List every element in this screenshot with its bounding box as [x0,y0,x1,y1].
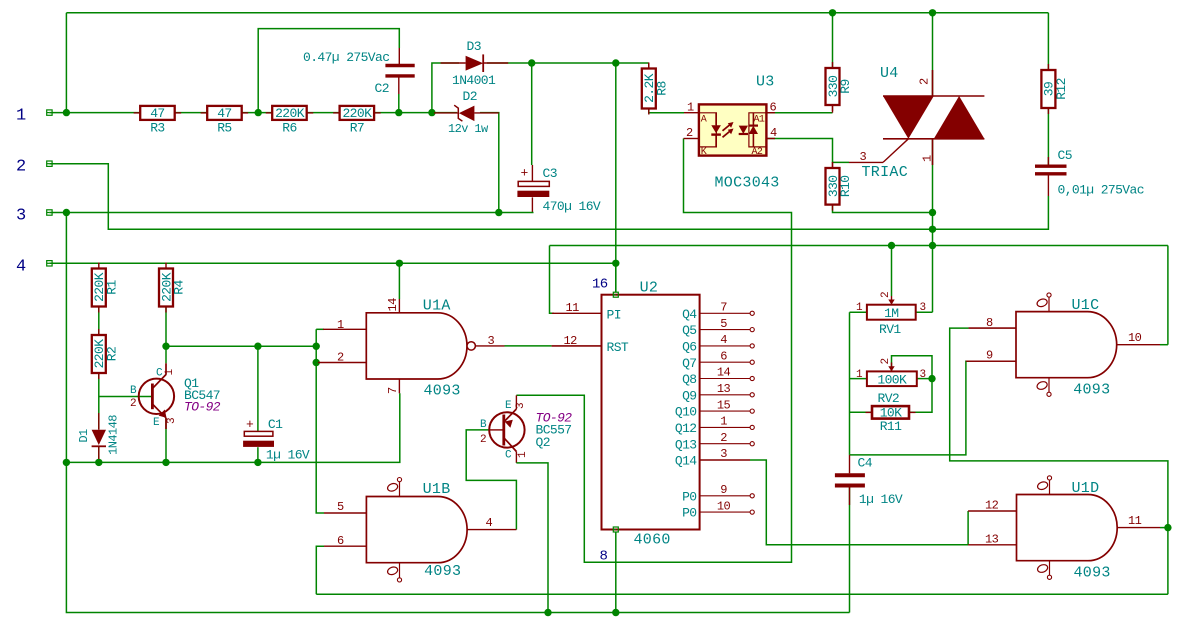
svg-text:D2: D2 [463,89,477,104]
svg-text:3: 3 [860,150,867,164]
wire U3 pin4 to gate and R10 [766,139,849,163]
svg-text:Q9: Q9 [682,388,696,403]
junction (257.9,346.2) [254,343,261,350]
svg-text:12v 1w: 12v 1w [448,122,489,136]
svg-text:8: 8 [600,549,608,565]
svg-text:220K: 220K [342,106,372,121]
svg-text:P0: P0 [682,506,696,521]
junction (399.4,263.3) [396,260,403,267]
svg-text:P0: P0 [682,489,696,504]
triac U4 [883,95,984,97]
junction (66.4,462.4) [63,459,70,466]
svg-text:3: 3 [920,369,926,381]
svg-text:9: 9 [986,349,993,363]
svg-text:PI: PI [607,308,621,323]
svg-text:Q5: Q5 [682,323,696,338]
resistor R6 [266,112,273,114]
svg-text:4093: 4093 [424,563,461,580]
wire RV column x=849.5 [849,312,851,455]
wire collector node row [166,345,316,347]
node pin3 pad [47,210,52,215]
svg-text:C: C [505,450,512,462]
capacitor C3 electrolytic [531,165,533,181]
svg-text:7: 7 [720,301,727,315]
svg-text:7: 7 [386,387,400,394]
svg-text:B: B [130,385,137,397]
junction (891.5,245.5) [888,242,895,249]
svg-text:4: 4 [770,126,777,140]
wire Q2 emitter lead [515,395,517,409]
junction (66.4,112.6) [63,109,70,116]
svg-text:TO-92: TO-92 [184,400,221,415]
wire R4 drop to collector node [165,305,167,363]
svg-text:A2: A2 [752,147,763,158]
svg-text:3: 3 [515,403,527,409]
wire Q14 to U1D inputs [750,460,968,545]
svg-text:D3: D3 [467,39,481,54]
svg-text:U2: U2 [640,280,659,297]
junction (615.8,63) [612,59,619,66]
junction (615.8,612.5) [612,609,619,616]
wire R11 left corner [850,411,873,413]
junction (531.7,63) [528,59,535,66]
resistor R12 [1047,64,1049,70]
svg-text:C2: C2 [375,81,389,96]
wire RV1 pin3 corner [916,311,933,313]
svg-text:U3: U3 [756,74,775,91]
resistor R2 [98,329,100,335]
wire R9 bottom to U3 pin6 [766,112,832,114]
wire 245 line [550,245,1168,247]
wire U1D pin12 corner [967,511,969,545]
svg-text:5: 5 [720,317,727,331]
wire U1A pin14 riser [398,263,400,299]
junction (932.5,212.5) [929,209,936,216]
wire TRIAC MT2 from rail [932,13,934,96]
svg-text:4060: 4060 [634,532,671,549]
svg-text:1M: 1M [884,306,898,321]
junction (316.2,362.5) [313,359,320,366]
svg-text:4093: 4093 [424,383,461,400]
wire R8 bottom to U3 pin1 [649,109,684,113]
svg-text:14: 14 [717,366,731,380]
wire R10 bottom to MT1 [833,205,933,213]
svg-text:1: 1 [921,155,935,162]
svg-text:U1A: U1A [423,298,451,315]
svg-text:1: 1 [16,107,26,126]
svg-text:D1: D1 [77,429,91,443]
wire C3 top riser [531,63,533,165]
svg-text:1: 1 [164,369,176,376]
diode D3 1N4001 [466,56,484,71]
junction (316.2,346.2) [313,343,320,350]
svg-text:Q2: Q2 [536,435,550,450]
svg-text:220K: 220K [275,106,305,121]
wire U1C out riser [1167,246,1169,345]
junction (832.5,12.8) [829,9,836,16]
svg-text:2: 2 [337,351,344,365]
svg-text:U1C: U1C [1072,297,1100,314]
wire U2 pin11 feed from 245 line [550,246,555,314]
svg-text:1: 1 [687,101,694,115]
svg-text:R5: R5 [217,120,231,135]
wire Q2 base to U1B out [489,429,503,431]
wire C1 top [257,346,259,431]
op-amp U1D 4093 gate [1017,494,1118,560]
svg-text:2: 2 [16,158,26,177]
wire Q2 collector to gnd [515,452,517,463]
opto-isolator U3 MOC3043 [699,104,767,155]
junction (166,346.2) [162,343,169,350]
wire U2 pin8 to gnd [615,532,617,612]
capacitor C2 [398,48,400,64]
junction (1167.9,527.6) [1164,524,1171,531]
svg-text:2: 2 [130,398,136,410]
svg-text:R9: R9 [838,79,853,93]
wire U1C pin8 route [969,327,1016,329]
wire gnd drop to bottom rail [66,462,849,612]
svg-text:1N4148: 1N4148 [107,415,121,455]
wire net2 to C5 [933,196,1049,229]
wire U2 pin16 riser [615,263,617,292]
junction (166,462.4) [162,459,169,466]
svg-text:Q8: Q8 [682,372,696,387]
resistor R9 [832,62,834,68]
junction (615.8,263.3) [612,260,619,267]
svg-text:1µ 16V: 1µ 16V [266,448,310,463]
svg-text:3: 3 [488,334,495,348]
svg-text:R1: R1 [104,280,119,295]
wire net2 row [49,164,932,230]
svg-text:4: 4 [16,258,26,277]
potentiometer RV2 100K [867,371,917,386]
wire C2 bottom [398,94,400,113]
resistor R11 [866,411,873,413]
svg-text:K: K [701,147,707,158]
wire U3 pin2 loop to Q2 emitter [516,139,791,563]
capacitor C5 [1047,157,1049,166]
svg-text:R8: R8 [654,81,669,95]
junction (98.8,462.4) [95,459,102,466]
svg-text:C1: C1 [268,417,283,432]
svg-text:8: 8 [986,316,993,330]
svg-text:3: 3 [166,418,178,424]
svg-text:3: 3 [720,447,727,461]
transistor Q1 BC547 [139,379,174,414]
resistor R10 [832,162,834,168]
svg-text:Q14: Q14 [675,454,697,469]
svg-text:15: 15 [717,398,731,412]
svg-text:A: A [701,115,707,126]
wire D3 cathode to R8 [487,62,649,64]
svg-text:2: 2 [880,358,892,364]
wire C2 parallel loop [258,29,399,113]
svg-text:R3: R3 [150,120,164,135]
svg-text:U1D: U1D [1072,480,1100,497]
svg-text:R4: R4 [172,280,187,295]
svg-text:1µ 16V: 1µ 16V [859,492,903,507]
potentiometer RV1 1M [867,305,916,320]
resistor R1 [98,263,100,269]
svg-text:E: E [153,417,160,429]
svg-text:47: 47 [217,106,231,121]
svg-text:A1: A1 [754,115,765,126]
op-amp U1B 4093 gate [366,496,467,562]
svg-text:2: 2 [720,431,727,445]
svg-text:10: 10 [1128,331,1142,345]
wire D2 anode drop [480,113,499,213]
capacitor C4 [849,455,851,473]
junction (932.5,12.8) [929,9,936,16]
junction (66.4,212.5) [63,209,70,216]
resistor R3 [134,112,141,114]
svg-text:14: 14 [386,298,400,312]
junction (498.8,212.5) [495,209,502,216]
node pin2 pad [47,161,52,166]
diode D1 1N4148 [92,430,106,445]
svg-text:R6: R6 [282,120,296,135]
svg-text:2: 2 [686,126,693,140]
wire D3 riser [432,63,459,113]
wire U1B pin6 riser [316,546,324,594]
svg-text:0.47µ 275Vac: 0.47µ 275Vac [303,50,389,65]
node pin1 pad [47,110,52,115]
wire Vcc riser x=615.8 [615,63,617,292]
svg-text:Q6: Q6 [682,340,696,355]
svg-text:1: 1 [856,369,863,381]
svg-text:R10: R10 [838,175,853,197]
junction (932.5,245.5) [929,242,936,249]
svg-text:12: 12 [985,499,999,513]
svg-text:470µ 16V: 470µ 16V [543,199,601,214]
wire R11 right loop [909,379,932,413]
wire net3 left drop [66,213,399,463]
node U2 pin16 pad [613,292,618,297]
wire R1R2 link [98,305,100,337]
wire RV1 pin3 riser [932,246,934,313]
svg-text:4093: 4093 [1073,382,1110,399]
svg-text:6: 6 [720,349,727,363]
junction (932,378.6) [928,375,935,382]
svg-text:U1B: U1B [423,481,451,498]
svg-text:2: 2 [480,434,486,446]
junction (548,612.5) [544,609,551,616]
svg-text:3: 3 [920,302,926,314]
svg-text:13: 13 [717,382,731,396]
wire D1 cathode to rail [98,447,100,462]
svg-text:16: 16 [592,277,608,293]
svg-text:R7: R7 [350,120,364,135]
junction (431.9,112.6) [428,109,435,116]
svg-text:R2: R2 [104,347,119,361]
wire U1D out stub [1160,527,1168,529]
transistor Q2 BC557 [489,412,524,447]
svg-text:Q13: Q13 [675,437,697,452]
wire U1A out to U2 RST [475,345,504,347]
svg-text:Q7: Q7 [682,356,696,371]
svg-text:1: 1 [337,318,344,332]
wire D1 link [98,397,100,430]
svg-text:1N4001: 1N4001 [452,73,496,88]
wire R10 top pin [832,162,834,168]
junction (257.9,462.4) [254,459,261,466]
svg-text:B: B [480,419,487,431]
wire R12 to C5 [1047,108,1049,165]
svg-text:11: 11 [1128,514,1142,528]
svg-text:4: 4 [720,333,727,347]
svg-text:RST: RST [607,340,629,355]
wire RV1 wiper feed [891,246,893,297]
junction (258.2,112.6) [255,109,262,116]
svg-text:6: 6 [770,101,777,115]
svg-text:Q12: Q12 [675,421,697,436]
wire C4 bottom to gnd [849,488,851,613]
svg-text:RV2: RV2 [878,391,900,406]
junction (398.8,112.6) [395,109,402,116]
svg-text:13: 13 [985,533,999,547]
node U2 pin8 pad [613,527,618,532]
wire Vcc row pin4 [49,262,615,264]
op-amp U1C 4093 gate [1016,312,1117,378]
junction (932.5,229.3) [929,226,936,233]
wire C3 bottom lead [531,197,533,212]
svg-text:10: 10 [717,499,731,513]
svg-text:6: 6 [337,534,344,548]
wire RV2 wiper loop [892,356,933,379]
wire Q1 base [99,396,152,398]
svg-text:+: + [521,166,529,181]
op-amp U1A 4093 gate [366,313,467,379]
IC U2 4060 [602,295,700,530]
wire net3 row [49,212,533,214]
svg-text:C3: C3 [543,166,557,181]
svg-text:1: 1 [720,415,727,429]
svg-text:Q4: Q4 [682,307,697,322]
svg-text:TRIAC: TRIAC [862,164,909,181]
svg-text:C4: C4 [858,456,873,471]
wire U1A pin1 corner [316,328,324,330]
wire C4 row to U1C pin9 [850,361,970,455]
svg-text:U4: U4 [880,65,899,82]
wire left drop to net1 [65,13,67,113]
svg-text:MOC3043: MOC3043 [715,175,780,192]
wire TRIAC MT1 down [932,139,934,246]
svg-text:4093: 4093 [1074,565,1111,582]
wire RV1 pin1 corner [850,311,867,313]
wire RV2 pin1 corner [850,378,867,380]
wire bottom feedback row [316,593,1168,595]
svg-text:2: 2 [880,292,892,298]
diode D2 zener 12v [459,106,475,122]
capacitor C1 electrolytic [244,431,273,436]
svg-text:C5: C5 [1058,148,1072,163]
svg-text:Q10: Q10 [675,405,697,420]
svg-text:R12: R12 [1054,78,1069,100]
wire Q1 emitter to rail [165,418,167,462]
svg-text:4: 4 [486,516,493,530]
wire R8 top pin [648,63,650,68]
svg-text:E: E [505,400,512,412]
svg-text:1: 1 [856,302,863,314]
svg-text:3: 3 [16,207,26,226]
svg-text:RV1: RV1 [879,322,901,337]
wire R2 to Q1 base junction [98,371,100,397]
wire net1 row [49,112,457,114]
wire U1C out stub [1160,344,1168,346]
resistor R5 [201,112,208,114]
wire RV2 pin3 stub [917,378,932,380]
wire C1 bottom [257,447,259,462]
svg-text:+: + [246,417,254,432]
svg-text:9: 9 [720,483,727,497]
wire U1A input riser [316,329,324,513]
resistor R7 [333,112,340,114]
svg-text:5: 5 [337,500,344,514]
svg-text:47: 47 [150,106,164,121]
wire top rail net L [66,12,1048,14]
wire R12 top riser [1047,13,1049,70]
svg-text:1: 1 [517,451,529,458]
svg-text:0,01µ 275Vac: 0,01µ 275Vac [1058,183,1144,198]
svg-text:R11: R11 [880,419,902,434]
svg-text:100K: 100K [877,372,907,387]
wire R9 top riser [832,13,834,68]
resistor R8 [648,63,650,69]
node pin4 pad [47,261,52,266]
resistor R4 [165,263,167,269]
svg-text:C: C [156,368,163,380]
svg-text:2: 2 [918,78,932,85]
